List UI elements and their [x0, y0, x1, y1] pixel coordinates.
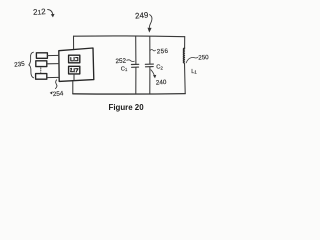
box module 237 — [69, 55, 80, 63]
svg-text:254: 254 — [53, 90, 65, 98]
wire right edge lower — [184, 63, 187, 94]
wire top rail — [74, 35, 185, 38]
svg-text:235: 235 — [14, 61, 26, 69]
label 237 scribble — [71, 57, 78, 61]
dotted ellipsis between pads — [40, 68, 42, 73]
svg-text:249: 249 — [135, 10, 150, 20]
box U1 device housing — [59, 48, 94, 81]
svg-text:212: 212 — [33, 7, 47, 17]
leader arrow 249 — [149, 15, 152, 31]
wire rail to box top — [73, 36, 75, 49]
leader curve 240 — [151, 70, 155, 77]
wire bottom rail — [73, 93, 185, 95]
svg-text:252: 252 — [115, 58, 126, 66]
svg-text:Figure 20: Figure 20 — [109, 103, 145, 112]
wire pad2 to box — [47, 63, 59, 65]
wire pad3 to box — [47, 76, 59, 78]
svg-text:250: 250 — [198, 54, 209, 62]
leader curve 250 — [186, 57, 198, 63]
capacitor C2 — [145, 64, 153, 67]
wire C2 branch lower — [149, 67, 151, 94]
svg-text:C1: C1 — [121, 66, 128, 72]
svg-text:C2: C2 — [156, 65, 163, 71]
wire pad1 to box — [47, 54, 58, 56]
wire C1 branch lower — [135, 68, 137, 94]
electrode pad 2 — [36, 61, 47, 67]
label 217 scribble — [71, 68, 78, 72]
wire C1 branch upper — [135, 36, 137, 64]
inductor L1 — [183, 48, 184, 63]
leader squiggle 254 — [55, 80, 57, 89]
wire right edge upper — [184, 37, 186, 49]
capacitor C1 — [131, 64, 138, 67]
leader squiggle 256 — [150, 50, 155, 51]
leader arrow 212 — [48, 9, 53, 15]
wire box bottom to bottom rail — [72, 81, 74, 93]
wire module to box bottom — [73, 74, 75, 80]
box module 217 — [69, 66, 80, 74]
svg-text:240: 240 — [156, 79, 167, 87]
leader squiggle 252 — [127, 60, 134, 62]
electrode pad 1 — [36, 53, 47, 59]
svg-text:256: 256 — [156, 48, 168, 56]
wire C2 branch upper — [149, 37, 151, 64]
svg-text:L1: L1 — [191, 69, 197, 75]
brace for 235 — [29, 52, 34, 78]
electrode pad 3 — [36, 74, 47, 80]
